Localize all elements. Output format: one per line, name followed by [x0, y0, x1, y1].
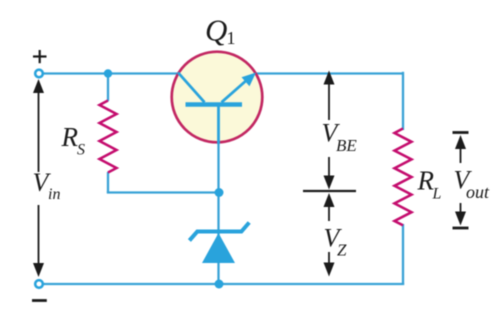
svg-text:1: 1	[227, 28, 236, 48]
svg-text:Q: Q	[205, 13, 227, 48]
svg-text:S: S	[77, 142, 85, 159]
svg-text:in: in	[48, 186, 60, 203]
svg-text:out: out	[466, 182, 490, 202]
svg-text:R: R	[61, 122, 79, 152]
svg-text:BE: BE	[336, 136, 357, 155]
svg-text:L: L	[432, 186, 442, 203]
svg-text:Z: Z	[337, 241, 347, 260]
